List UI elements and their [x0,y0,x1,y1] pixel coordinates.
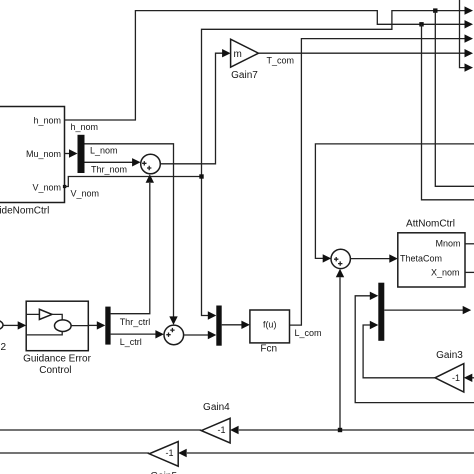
svg-text:h_nom: h_nom [71,122,99,132]
wire mux M2 output to Fcn [222,324,242,326]
arrowhead into Guidance Error Control [18,321,27,329]
node junction V_nom [199,174,203,178]
arrowhead M3 upper [370,292,379,300]
svg-text:-1: -1 [166,448,174,458]
arrowhead Thr_nom [132,158,141,166]
node V_nom port nub [63,185,66,188]
wire L_com to row3 arrow [290,39,465,338]
svg-text:Guidance Error: Guidance Error [23,353,91,364]
mux M2 [216,306,221,346]
arrowhead into Gain4 [230,426,239,434]
wire feedback up into sum S3 bottom [339,277,341,430]
arrowhead into S3 bottom [336,269,344,278]
arrowhead M3 output [463,306,472,314]
wire right edge into Gain3 [472,377,474,379]
svg-text:h_nom: h_nom [33,115,61,125]
block Guidance Error Control [23,301,91,376]
gain Gain5 [149,442,178,474]
arrowhead into Fcn [241,321,250,329]
wire X_nom out [465,271,474,273]
wire h_nom long feedback to row2 arrow [65,11,465,132]
wire T_com to row4 arrow [259,53,465,65]
node junction row1 branch [433,8,437,12]
gain Gain4 [201,402,230,443]
svg-text:2: 2 [1,342,7,353]
wire sum S1 output to Gain7 [160,53,222,164]
svg-text:V_nom: V_nom [71,189,100,199]
svg-text:f(u): f(u) [263,320,277,330]
wire V_nom net to row1 arrow [65,11,465,316]
arrowhead row4 [465,49,474,57]
svg-text:ThetaCom: ThetaCom [400,254,442,264]
wire Mnom out [465,243,474,245]
svg-text:Mnom: Mnom [435,238,460,248]
svg-text:AttNomCtrl: AttNomCtrl [406,219,455,230]
wire Gain5 output to left edge [0,452,149,454]
mux M3 [378,283,384,341]
arrowhead M3 lower [370,321,379,329]
wire Guidance Error Control output to demux M1 [88,324,97,326]
svg-text:Thr_ctrl: Thr_ctrl [120,317,151,327]
sum S1 [141,154,161,174]
arrowhead into Gain5 [178,449,187,457]
arrowhead row3 [465,34,474,42]
wire row2 branch down to right edge [422,24,474,200]
mux M0 [78,135,85,173]
wire Mu_nom into mux M0 [65,153,70,155]
demux M1 [105,307,110,345]
block Fcn f(u) [250,310,290,355]
wire right edge into sum S3 [315,144,474,259]
wire right edge into mux M3 upper [355,296,474,403]
svg-text:Control: Control [39,365,71,376]
wire top bus into row5 arrow [460,0,465,68]
wire mux M3 output to right edge arrow [384,309,463,311]
wire feedback line2 [187,452,474,454]
block AttNomCtrl [398,219,465,288]
arrowhead row1 [465,6,474,14]
wire Gain3 output into mux M3 lower [363,325,435,378]
arrowhead Thr_ctrl into S1 [146,174,154,183]
wire L_ctrl into sum S2 [111,334,156,347]
svg-text:-1: -1 [452,373,460,383]
wire Thr_ctrl up into sum S1 [111,183,150,314]
wire Gain4 output to left edge [0,429,201,431]
arrowhead into Gain7 [222,49,231,57]
svg-text:L_ctrl: L_ctrl [120,337,142,347]
svg-text:Gain3: Gain3 [436,350,463,361]
arrowhead into sum S3 left [323,254,332,262]
svg-text:X_nom: X_nom [431,268,460,278]
sum S3 [331,249,350,268]
wire sum S2 output into mux M2 [184,334,210,336]
block GuideNomCtrl [0,107,65,217]
arrowhead S2 output into M2 [208,331,217,339]
svg-text:L_nom: L_nom [90,145,118,155]
wire sum S3 output to AttNomCtrl [350,258,389,260]
wire row1 branch down to right edge [435,11,474,187]
svg-text:Gain7: Gain7 [231,70,258,81]
svg-text:Fcn: Fcn [260,344,277,355]
node junction row2 branch [419,22,423,26]
arrowhead into AttNomCtrl [389,254,398,262]
wire Thr_nom into sum S1 [85,162,133,174]
inport 2 [0,320,7,353]
arrowhead into demux M1 [97,321,106,329]
svg-text:Thr_nom: Thr_nom [91,164,127,174]
gain Gain3 [435,350,464,392]
svg-text:Gain4: Gain4 [203,402,230,413]
arrowhead into Gain3 [464,374,473,382]
wire feedback line1 [239,429,474,431]
node junction line1 [338,428,342,432]
arrowhead row2 [465,20,474,28]
wire inport 2 to Guidance Error Control [3,324,19,326]
svg-text:m: m [234,49,242,60]
wire L_nom down to sum S2 [85,144,174,317]
arrowhead row5 [465,63,474,71]
gain Gain7 [231,39,259,81]
svg-text:GuideNomCtrl: GuideNomCtrl [0,206,49,217]
svg-text:T_com: T_com [267,56,295,66]
svg-text:V_nom: V_nom [32,182,61,192]
svg-text:-1: -1 [218,425,226,435]
svg-text:L_com: L_com [295,328,322,338]
arrowhead V_nom into mux M2 [208,311,217,319]
svg-text:Mu_nom: Mu_nom [26,149,61,159]
sum S2 [164,325,184,345]
arrowhead L_ctrl into S2 [155,330,164,338]
arrowhead L_nom into sum S2 [169,316,177,325]
arrowhead Mu_nom [69,149,78,157]
